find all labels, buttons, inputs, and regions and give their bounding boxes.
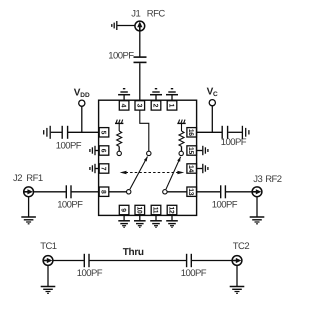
pin 16 [187, 128, 197, 137]
svg-text:TC1: TC1 [40, 241, 57, 252]
capacitor C7 100PF [187, 254, 192, 267]
pin 13 [187, 187, 197, 196]
wire J1 to C1 [139, 31, 141, 57]
wire J2 to ground [28, 197, 30, 217]
svg-text:Thru: Thru [123, 247, 144, 258]
pin 4 [119, 101, 129, 110]
switch arm SW2 [166, 157, 181, 189]
svg-text:100PF: 100PF [212, 200, 238, 211]
connector TC2 [232, 256, 242, 266]
switch arm SW1 [130, 157, 148, 190]
op-amp U1 chip body [99, 100, 197, 215]
node contact (right resistor) [179, 151, 183, 155]
svg-text:4: 4 [120, 104, 127, 108]
wire C2 to ground [51, 131, 62, 133]
ground (VDD rail) [44, 126, 51, 139]
pin 10 [135, 205, 145, 214]
pin 6 [99, 146, 109, 155]
wire C5 to J3 [226, 191, 252, 193]
wire pin 13 to right pole [167, 191, 187, 193]
resistor R2 (internal termination) [179, 131, 184, 146]
svg-text:15: 15 [187, 147, 194, 154]
ground (below TC1) [41, 287, 56, 294]
chassis ground (internal, right termination) [177, 120, 185, 131]
pin 14 [187, 164, 197, 173]
wire J2 to C4 [33, 191, 66, 193]
wire C6 to C7 [90, 260, 187, 262]
svg-text:100PF: 100PF [56, 140, 82, 151]
node pole (right switch) [163, 190, 167, 194]
ground (below pin 12) [166, 215, 178, 227]
node contact (RFC throw) [147, 151, 151, 155]
wire R2 to contact [181, 146, 183, 151]
chassis ground (internal, left termination) [115, 120, 123, 131]
pin 15 [187, 146, 197, 155]
svg-text:6: 6 [100, 149, 107, 153]
wire TC1 to ground [47, 265, 49, 286]
svg-text:J1: J1 [131, 8, 140, 19]
svg-text:100PF: 100PF [221, 137, 247, 148]
svg-text:J2: J2 [13, 173, 22, 184]
svg-text:C: C [213, 91, 218, 98]
ground (above pin 2) [150, 89, 162, 100]
svg-text:11: 11 [152, 207, 159, 214]
ground (above pin 4) [118, 89, 130, 100]
capacitor C6 100PF [84, 254, 89, 267]
pin 8 [99, 187, 109, 196]
wire pin 8 to left pole [109, 191, 127, 193]
ground (below TC2) [230, 287, 245, 294]
wire C7 to TC2 [192, 260, 232, 262]
node pole (left switch) [127, 190, 131, 194]
connector TC1 [43, 256, 53, 266]
dashed actuation link [120, 171, 185, 174]
svg-text:100PF: 100PF [108, 50, 134, 61]
svg-text:RF1: RF1 [26, 173, 43, 184]
wire chip pin 16 to rail [197, 131, 222, 133]
capacitor C4 100PF [66, 185, 71, 198]
wire C4 to pin 8 [72, 191, 100, 193]
ground (below pin 9) [118, 215, 130, 227]
svg-text:14: 14 [187, 165, 194, 172]
capacitor C2 100PF [62, 126, 67, 139]
wire VDD to rail [81, 106, 83, 132]
wire VDD rail to chip pin 5 [68, 131, 99, 133]
ground (VC rail) [242, 126, 249, 139]
connector J1 (RFC) [135, 21, 145, 31]
svg-text:100PF: 100PF [77, 268, 103, 279]
svg-text:RF2: RF2 [265, 174, 282, 185]
node contact (left resistor) [117, 151, 121, 155]
pin 11 [151, 205, 161, 214]
resistor R1 (internal termination) [117, 131, 122, 146]
ground (right of pin 14) [197, 164, 208, 173]
wire C1 to pin 3 [139, 63, 141, 100]
capacitor C1 100PF [134, 57, 147, 62]
pin 7 [99, 164, 109, 173]
ground (above pin 1) [166, 89, 178, 100]
capacitor C5 100PF [221, 185, 226, 198]
pin 1 [167, 101, 177, 110]
svg-text:3: 3 [135, 104, 142, 108]
connector J3 (RF2) [252, 187, 262, 197]
svg-text:12: 12 [168, 207, 175, 214]
ground (below pin 10) [134, 215, 146, 227]
ground (below J3) [250, 217, 265, 224]
connector J2 (RF1) [24, 187, 34, 197]
svg-text:8: 8 [100, 190, 107, 194]
wire J1 to ground [118, 25, 136, 27]
svg-text:J3: J3 [253, 174, 262, 185]
svg-text:RFC: RFC [147, 8, 166, 19]
wire pin 13 to C5 [197, 191, 221, 193]
svg-text:13: 13 [187, 188, 194, 195]
pin 3 [135, 101, 145, 110]
wire TC1 to C6 [53, 260, 84, 262]
node VDD [74, 88, 90, 107]
ground (left of pin 7) [90, 164, 99, 173]
pin 12 [167, 205, 177, 214]
ground (right of pin 15) [197, 146, 208, 155]
svg-text:9: 9 [120, 208, 127, 212]
ground (left of J1) [112, 21, 117, 30]
pin 2 [151, 101, 161, 110]
wire R1 to contact [118, 146, 120, 151]
svg-text:16: 16 [187, 129, 194, 136]
svg-text:10: 10 [135, 207, 142, 214]
svg-text:TC2: TC2 [233, 241, 250, 252]
svg-text:100PF: 100PF [57, 200, 83, 211]
wire J3 to ground [256, 197, 258, 217]
wire TC2 to ground [236, 265, 238, 286]
capacitor C3 100PF [222, 126, 227, 139]
ground (below pin 11) [150, 215, 162, 227]
ground (left of pin 6) [90, 146, 99, 155]
node VC [207, 87, 218, 106]
wire pin 3 to RFC contact (with jog) [140, 110, 149, 151]
svg-text:5: 5 [100, 131, 107, 135]
svg-text:100PF: 100PF [181, 268, 207, 279]
svg-text:1: 1 [168, 104, 175, 108]
ground (below J2) [21, 217, 36, 224]
svg-text:7: 7 [100, 167, 107, 171]
svg-text:DD: DD [80, 92, 90, 99]
pin 9 [119, 205, 129, 214]
wire C3 to ground [228, 131, 242, 133]
svg-text:2: 2 [152, 104, 159, 108]
pin 5 [99, 128, 109, 137]
wire VC to rail [211, 106, 213, 132]
